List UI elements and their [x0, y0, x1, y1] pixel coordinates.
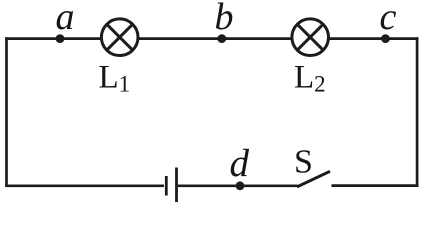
- svg-text:L2: L2: [294, 60, 326, 97]
- wire bottom segment middle: [178, 184, 298, 187]
- svg-text:L1: L1: [99, 60, 131, 97]
- wire top segment left: [5, 37, 102, 40]
- battery cell: [166, 168, 176, 203]
- lamp L1: [101, 19, 138, 56]
- lamp L2: [292, 19, 329, 56]
- node b: [217, 34, 226, 43]
- wire top segment middle: [138, 37, 293, 40]
- node d: [236, 181, 245, 190]
- node a: [56, 34, 65, 43]
- switch S blade: [297, 171, 330, 187]
- wire bottom segment right: [332, 184, 419, 187]
- svg-text:S: S: [294, 144, 313, 181]
- wire left vertical: [5, 37, 8, 187]
- node c: [381, 34, 390, 43]
- svg-text:c: c: [380, 0, 397, 38]
- wire right vertical: [416, 37, 419, 187]
- svg-text:b: b: [215, 0, 234, 38]
- wire top segment right: [328, 37, 418, 40]
- svg-text:a: a: [56, 0, 75, 38]
- svg-text:d: d: [230, 142, 250, 185]
- wire bottom segment left: [5, 184, 164, 187]
